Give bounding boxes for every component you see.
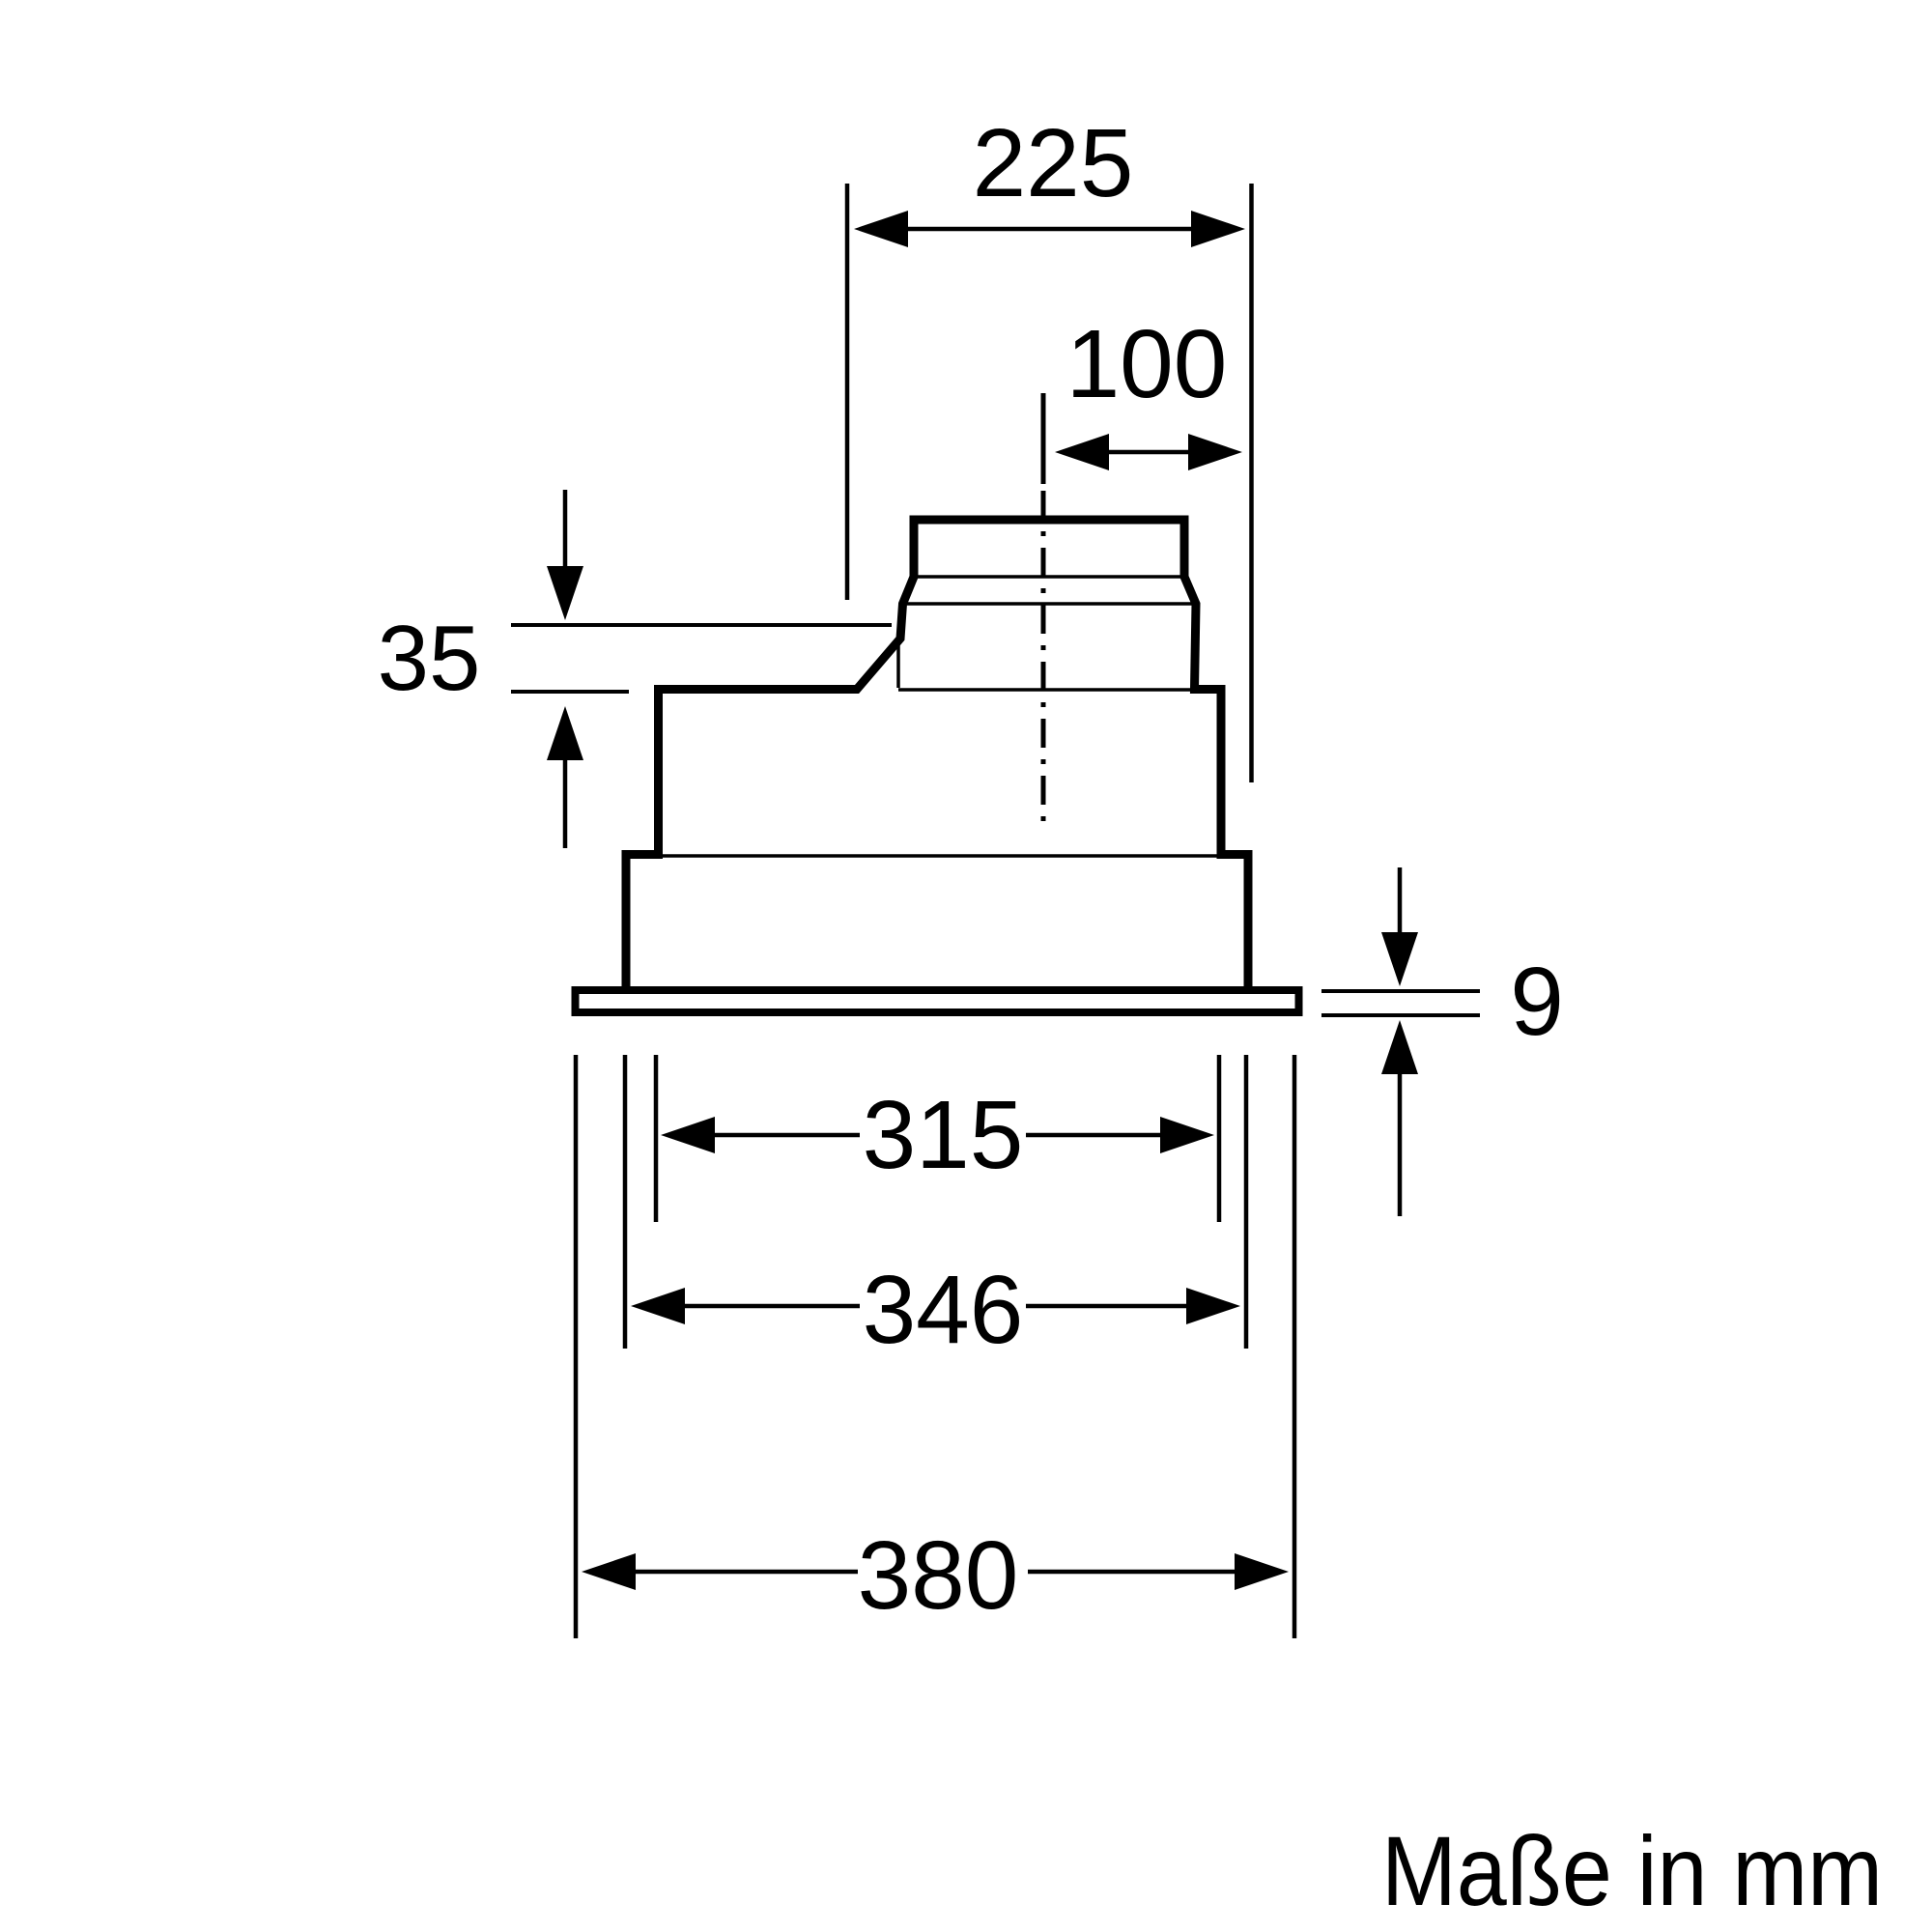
dimension 35 down arrow bbox=[547, 490, 583, 620]
svg-text:35: 35 bbox=[378, 607, 481, 710]
dimension 346 arrow bbox=[631, 1288, 1240, 1324]
dimension 315 arrow bbox=[661, 1117, 1214, 1153]
dimension 315 extension line right bbox=[1217, 1055, 1222, 1222]
svg-text:Maße in mm: Maße in mm bbox=[1381, 1816, 1883, 1926]
dimension 225 extension line right bbox=[1249, 184, 1254, 782]
svg-text:225: 225 bbox=[973, 109, 1134, 217]
dimension 35 reference line bottom bbox=[511, 690, 629, 694]
svg-text:9: 9 bbox=[1510, 948, 1564, 1056]
dimension 9 down arrow bbox=[1381, 867, 1418, 986]
svg-text:346: 346 bbox=[863, 1256, 1024, 1364]
svg-text:315: 315 bbox=[863, 1081, 1024, 1189]
collar crimp line upper bbox=[918, 575, 1180, 579]
center line solid segment (100 extension) bbox=[1041, 393, 1046, 484]
collar crimp line lower bbox=[905, 602, 1193, 606]
dimension 100 arrow bbox=[1055, 434, 1242, 470]
dimension 35 up arrow bbox=[547, 706, 583, 848]
dimension 346 extension line right bbox=[1244, 1055, 1249, 1349]
dimension 346 extension line left bbox=[623, 1055, 628, 1349]
dimension 9 reference line top bbox=[1321, 989, 1480, 993]
dimension 225 extension line left bbox=[845, 184, 850, 600]
svg-text:100: 100 bbox=[1066, 310, 1228, 418]
dimension 380 extension line left bbox=[574, 1055, 579, 1638]
collar base line bbox=[898, 688, 1191, 692]
flange bbox=[576, 990, 1299, 1012]
hood body outline bbox=[626, 520, 1248, 990]
center line dash-dot bbox=[1041, 491, 1046, 833]
dimension 380 extension line right bbox=[1293, 1055, 1297, 1638]
dimension 9 reference line bottom bbox=[1321, 1013, 1480, 1017]
dimension 9 up arrow bbox=[1381, 1020, 1418, 1216]
dimension 225 arrow bbox=[854, 211, 1245, 247]
dimension 315 extension line left bbox=[654, 1055, 659, 1222]
tier divide line bbox=[661, 854, 1217, 858]
collar hidden left edge bbox=[896, 639, 900, 688]
dimension 380 arrow bbox=[582, 1553, 1289, 1590]
dimension 35 reference line top bbox=[511, 623, 892, 627]
svg-text:380: 380 bbox=[858, 1521, 1019, 1630]
